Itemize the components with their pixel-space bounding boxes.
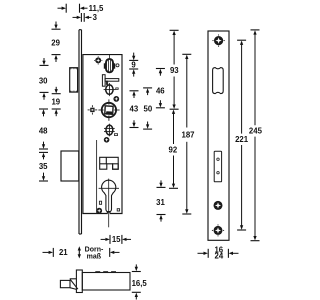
- dimension 93: [170, 30, 180, 109]
- svg-text:245: 245: [249, 127, 263, 136]
- star screw bottom left of cylinder: [96, 208, 102, 214]
- latch bolt protrusion: [70, 68, 78, 92]
- dimension 3 top: [73, 13, 98, 22]
- svg-text:16,5: 16,5: [132, 279, 148, 288]
- dimension 15 bottom: [101, 235, 131, 244]
- case internal vertical line: [96, 140, 98, 214]
- dimension 35: [39, 152, 48, 181]
- dimension 46: [156, 69, 165, 108]
- dimension 187: [181, 54, 194, 214]
- svg-text:24: 24: [215, 251, 224, 260]
- svg-text:43: 43: [130, 105, 139, 114]
- dimension 43: [130, 91, 139, 128]
- dimension 48: [39, 109, 48, 149]
- right faceplate front view: [208, 31, 229, 240]
- faceplate screw middle: [214, 201, 223, 210]
- svg-text:221: 221: [235, 135, 249, 144]
- svg-text:9: 9: [131, 60, 136, 69]
- dimension 30: [39, 58, 49, 100]
- svg-text:48: 48: [39, 126, 48, 135]
- bottom latch view: body: [60, 270, 130, 293]
- faceplate cylinder fixing plate with two holes: [214, 151, 221, 182]
- svg-text:46: 46: [156, 87, 165, 96]
- svg-text:92: 92: [169, 146, 178, 155]
- svg-text:19: 19: [51, 97, 60, 106]
- hub ellipse lower: [104, 124, 115, 137]
- svg-text:30: 30: [39, 77, 48, 86]
- bottom latch view: collar: [76, 270, 82, 293]
- follower nut: [98, 99, 119, 120]
- lock case side view: [83, 55, 122, 214]
- svg-text:21: 21: [59, 248, 68, 257]
- faceplate screw bottom: [212, 224, 224, 236]
- svg-text:3: 3: [93, 13, 98, 22]
- deadbolt protrusion: [61, 151, 79, 181]
- dimension 31: [156, 180, 165, 221]
- svg-text:31: 31: [156, 198, 165, 207]
- bottom latch view: head nose: [60, 280, 70, 287]
- dimension 29: [51, 22, 60, 63]
- svg-text:Dorn-: Dorn-: [85, 247, 104, 254]
- hub ellipse upper: [104, 83, 116, 96]
- dimension 19: [51, 87, 60, 116]
- stop block: [100, 157, 119, 169]
- faceplate latch cutout: [213, 68, 224, 94]
- svg-text:maß: maß: [87, 254, 102, 261]
- svg-text:187: 187: [181, 131, 194, 140]
- svg-text:11,5: 11,5: [89, 4, 104, 13]
- dimension 9: [129, 53, 138, 77]
- bottom latch view: rivet dashes: [95, 271, 116, 273]
- dimension 50: [143, 88, 153, 129]
- faceplate screw top: [212, 34, 224, 46]
- faceplate side view: [78, 30, 80, 234]
- dimension 11,5 top: [58, 4, 105, 13]
- cross pin left of follower: [88, 105, 98, 114]
- euro cylinder profile: [99, 179, 119, 228]
- svg-text:93: 93: [170, 66, 179, 75]
- svg-text:35: 35: [39, 162, 48, 171]
- T-lever: [102, 75, 118, 87]
- star screw lower: [104, 137, 110, 143]
- small rect right of hub: [116, 88, 118, 90]
- dimension 16,5 bottom: [132, 264, 148, 299]
- dimension 92: [169, 110, 178, 189]
- screw head top-left in case: [94, 56, 102, 64]
- small square left of cylinder: [99, 201, 101, 204]
- star screw below: [113, 96, 119, 102]
- dimension 245: [249, 30, 263, 241]
- small square right of cylinder: [117, 209, 119, 211]
- svg-text:15: 15: [112, 235, 121, 244]
- small pin circle right of latch: [116, 64, 119, 67]
- latch bevel marks: [70, 68, 77, 92]
- latch follower capsule: [104, 55, 115, 72]
- dimension 221: [235, 40, 249, 230]
- dimension 16/24 bottom right: [198, 245, 239, 260]
- svg-text:29: 29: [51, 38, 60, 47]
- small rect right of lower hub: [114, 134, 117, 136]
- dimension 21 / Dornmass row: [43, 246, 120, 260]
- svg-text:50: 50: [144, 105, 153, 114]
